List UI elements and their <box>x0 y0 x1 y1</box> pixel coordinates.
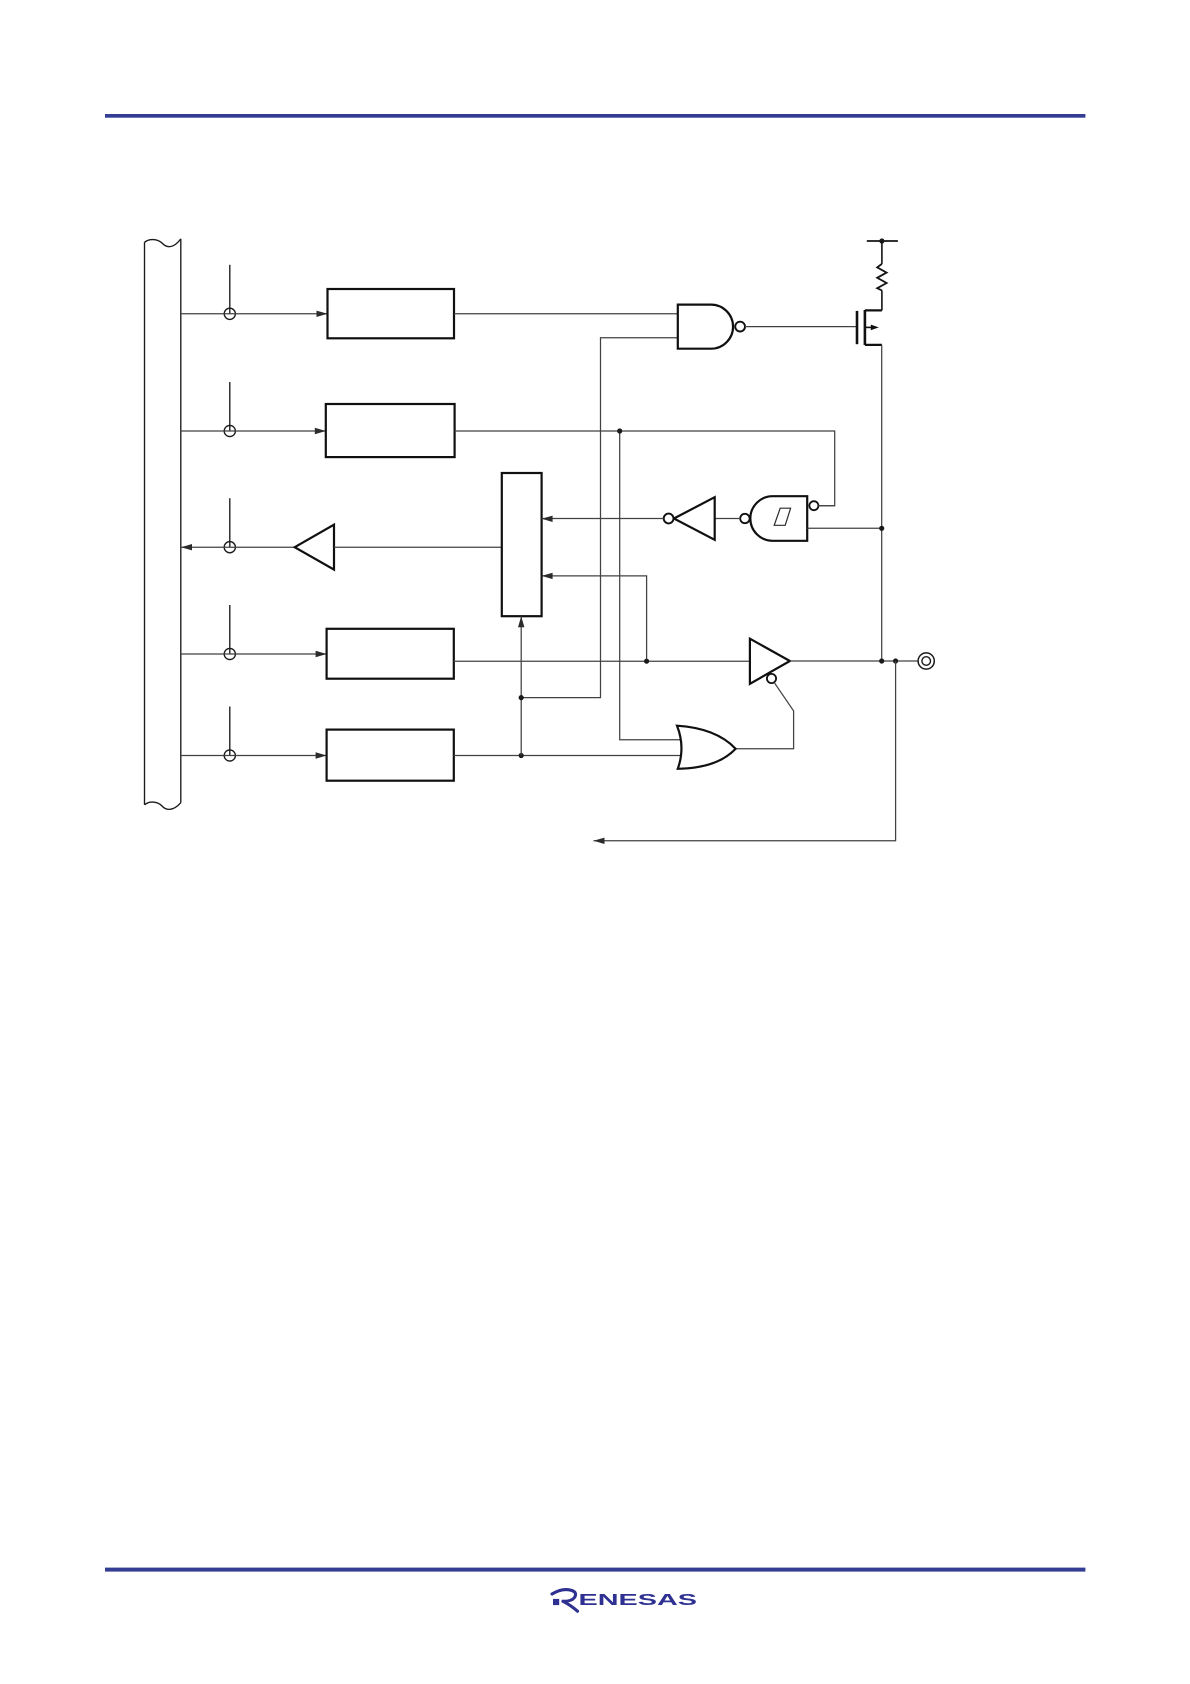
arrowhead into B1 <box>317 311 328 317</box>
arrowhead up into mux bottom <box>518 616 524 627</box>
wire: B5 output to OR gate lower input <box>454 755 683 757</box>
OR gate U6 <box>677 726 736 769</box>
I/O pad (double circle) <box>918 653 934 669</box>
row 2 bus tap circle <box>224 425 235 436</box>
wire: bus to register box B4 <box>181 653 327 655</box>
wire: bus to register box B2 <box>181 430 326 432</box>
wire: inverter output to multiplexer input 1 <box>542 518 664 520</box>
output buffer enable bubble <box>767 674 776 683</box>
read buffer U2 (triangle) <box>295 525 334 570</box>
arrowhead into bus <box>181 544 192 550</box>
Renesas logo <box>552 1590 698 1612</box>
arrowhead into B2 <box>315 428 326 434</box>
register box B4 <box>327 629 454 679</box>
hysteresis symbol <box>774 508 790 525</box>
wire: B1 to NAND U1 input 1 <box>454 313 678 315</box>
wire: schmitt top bubble to enable net <box>818 505 834 507</box>
inverter output bubble <box>664 514 674 524</box>
wire: branch up from B4 output to multiplexer input 2 <box>542 576 647 661</box>
arrowhead into multiplexer input 2 <box>542 573 553 579</box>
output buffer U3 (tri-state triangle) <box>750 639 790 684</box>
junction at schmitt lower input on drain line <box>879 526 884 531</box>
wire: schmitt lower input from pad node <box>807 527 882 529</box>
junction on B4 output line <box>644 659 649 664</box>
row 5 bus tap circle <box>224 750 235 761</box>
junction on power rail <box>879 238 884 243</box>
junction drain/pad node <box>879 658 884 663</box>
svg-text:ENESAS: ENESAS <box>579 1592 698 1609</box>
register box B2 <box>326 404 455 457</box>
wire: branch from B2 line down to OR gate top input <box>620 431 683 740</box>
wire: NAND to MOSFET gate <box>745 326 856 328</box>
row 1 bus tap circle <box>224 308 235 319</box>
wire: multiplexer to read buffer <box>334 546 502 548</box>
wire: NAND U1 input 2 net (from mux select line, right then up to NAND) <box>521 338 678 698</box>
row 5 bus tap tick <box>229 707 231 756</box>
p-channel MOSFET Q1 <box>857 310 882 345</box>
junction on B5 output line <box>519 753 524 758</box>
power rail <box>867 240 898 242</box>
wire: schmitt output to inverter <box>715 518 741 520</box>
NAND output bubble <box>735 322 745 332</box>
row 1 bus tap tick <box>229 265 231 314</box>
schmitt top input bubble <box>809 501 818 510</box>
wire: bus to register box B5 <box>181 755 327 757</box>
row 3 bus tap circle <box>224 542 235 553</box>
arrowhead into B4 <box>316 651 327 657</box>
junction on B2 output line <box>617 428 622 433</box>
wire: OR gate output to enable bubble <box>736 682 794 748</box>
arrowhead feedback (points left) <box>594 838 605 844</box>
row 4 bus tap circle <box>224 648 235 659</box>
row 3 bus tap tick <box>229 498 231 547</box>
top header rule <box>105 114 1085 118</box>
wire: B4 output to output buffer U3 <box>454 660 750 662</box>
wire: output line to pad <box>790 660 918 662</box>
arrowhead into multiplexer input 1 <box>542 516 553 522</box>
wire: mux select vertical down from mux bottom <box>520 616 522 755</box>
row 2 bus tap tick <box>229 382 231 431</box>
schmitt trigger gate U4 (left-facing) <box>750 496 807 541</box>
arrowhead into B5 <box>316 752 327 758</box>
wire: feedback from pad node down and left <box>594 661 896 841</box>
inverter U5 (left-facing triangle) <box>674 497 715 540</box>
wire: rail to pull-up resistor <box>881 241 883 264</box>
junction feedback node <box>893 658 898 663</box>
pull-up resistor R1 (zigzag) <box>877 264 886 291</box>
wire: bus to register box B1 <box>181 313 328 315</box>
internal data bus (left vertical bus) <box>145 239 181 809</box>
register box B5 <box>327 730 454 781</box>
bottom footer rule <box>105 1568 1085 1572</box>
NAND gate U1 <box>678 305 733 349</box>
row 4 bus tap tick <box>229 605 231 654</box>
schmitt output bubble <box>740 514 749 523</box>
wire: resistor to MOSFET source <box>881 290 883 310</box>
wire: B2 output to schmitt enable (right then down to schmitt top bubble) <box>455 431 835 506</box>
junction on mux select line <box>519 695 524 700</box>
wire: read buffer output to bus <box>181 546 295 548</box>
register box B1 <box>328 289 455 338</box>
wire: MOSFET drain down to pad node <box>881 345 883 661</box>
multiplexer MUX (tall box) <box>502 473 542 616</box>
